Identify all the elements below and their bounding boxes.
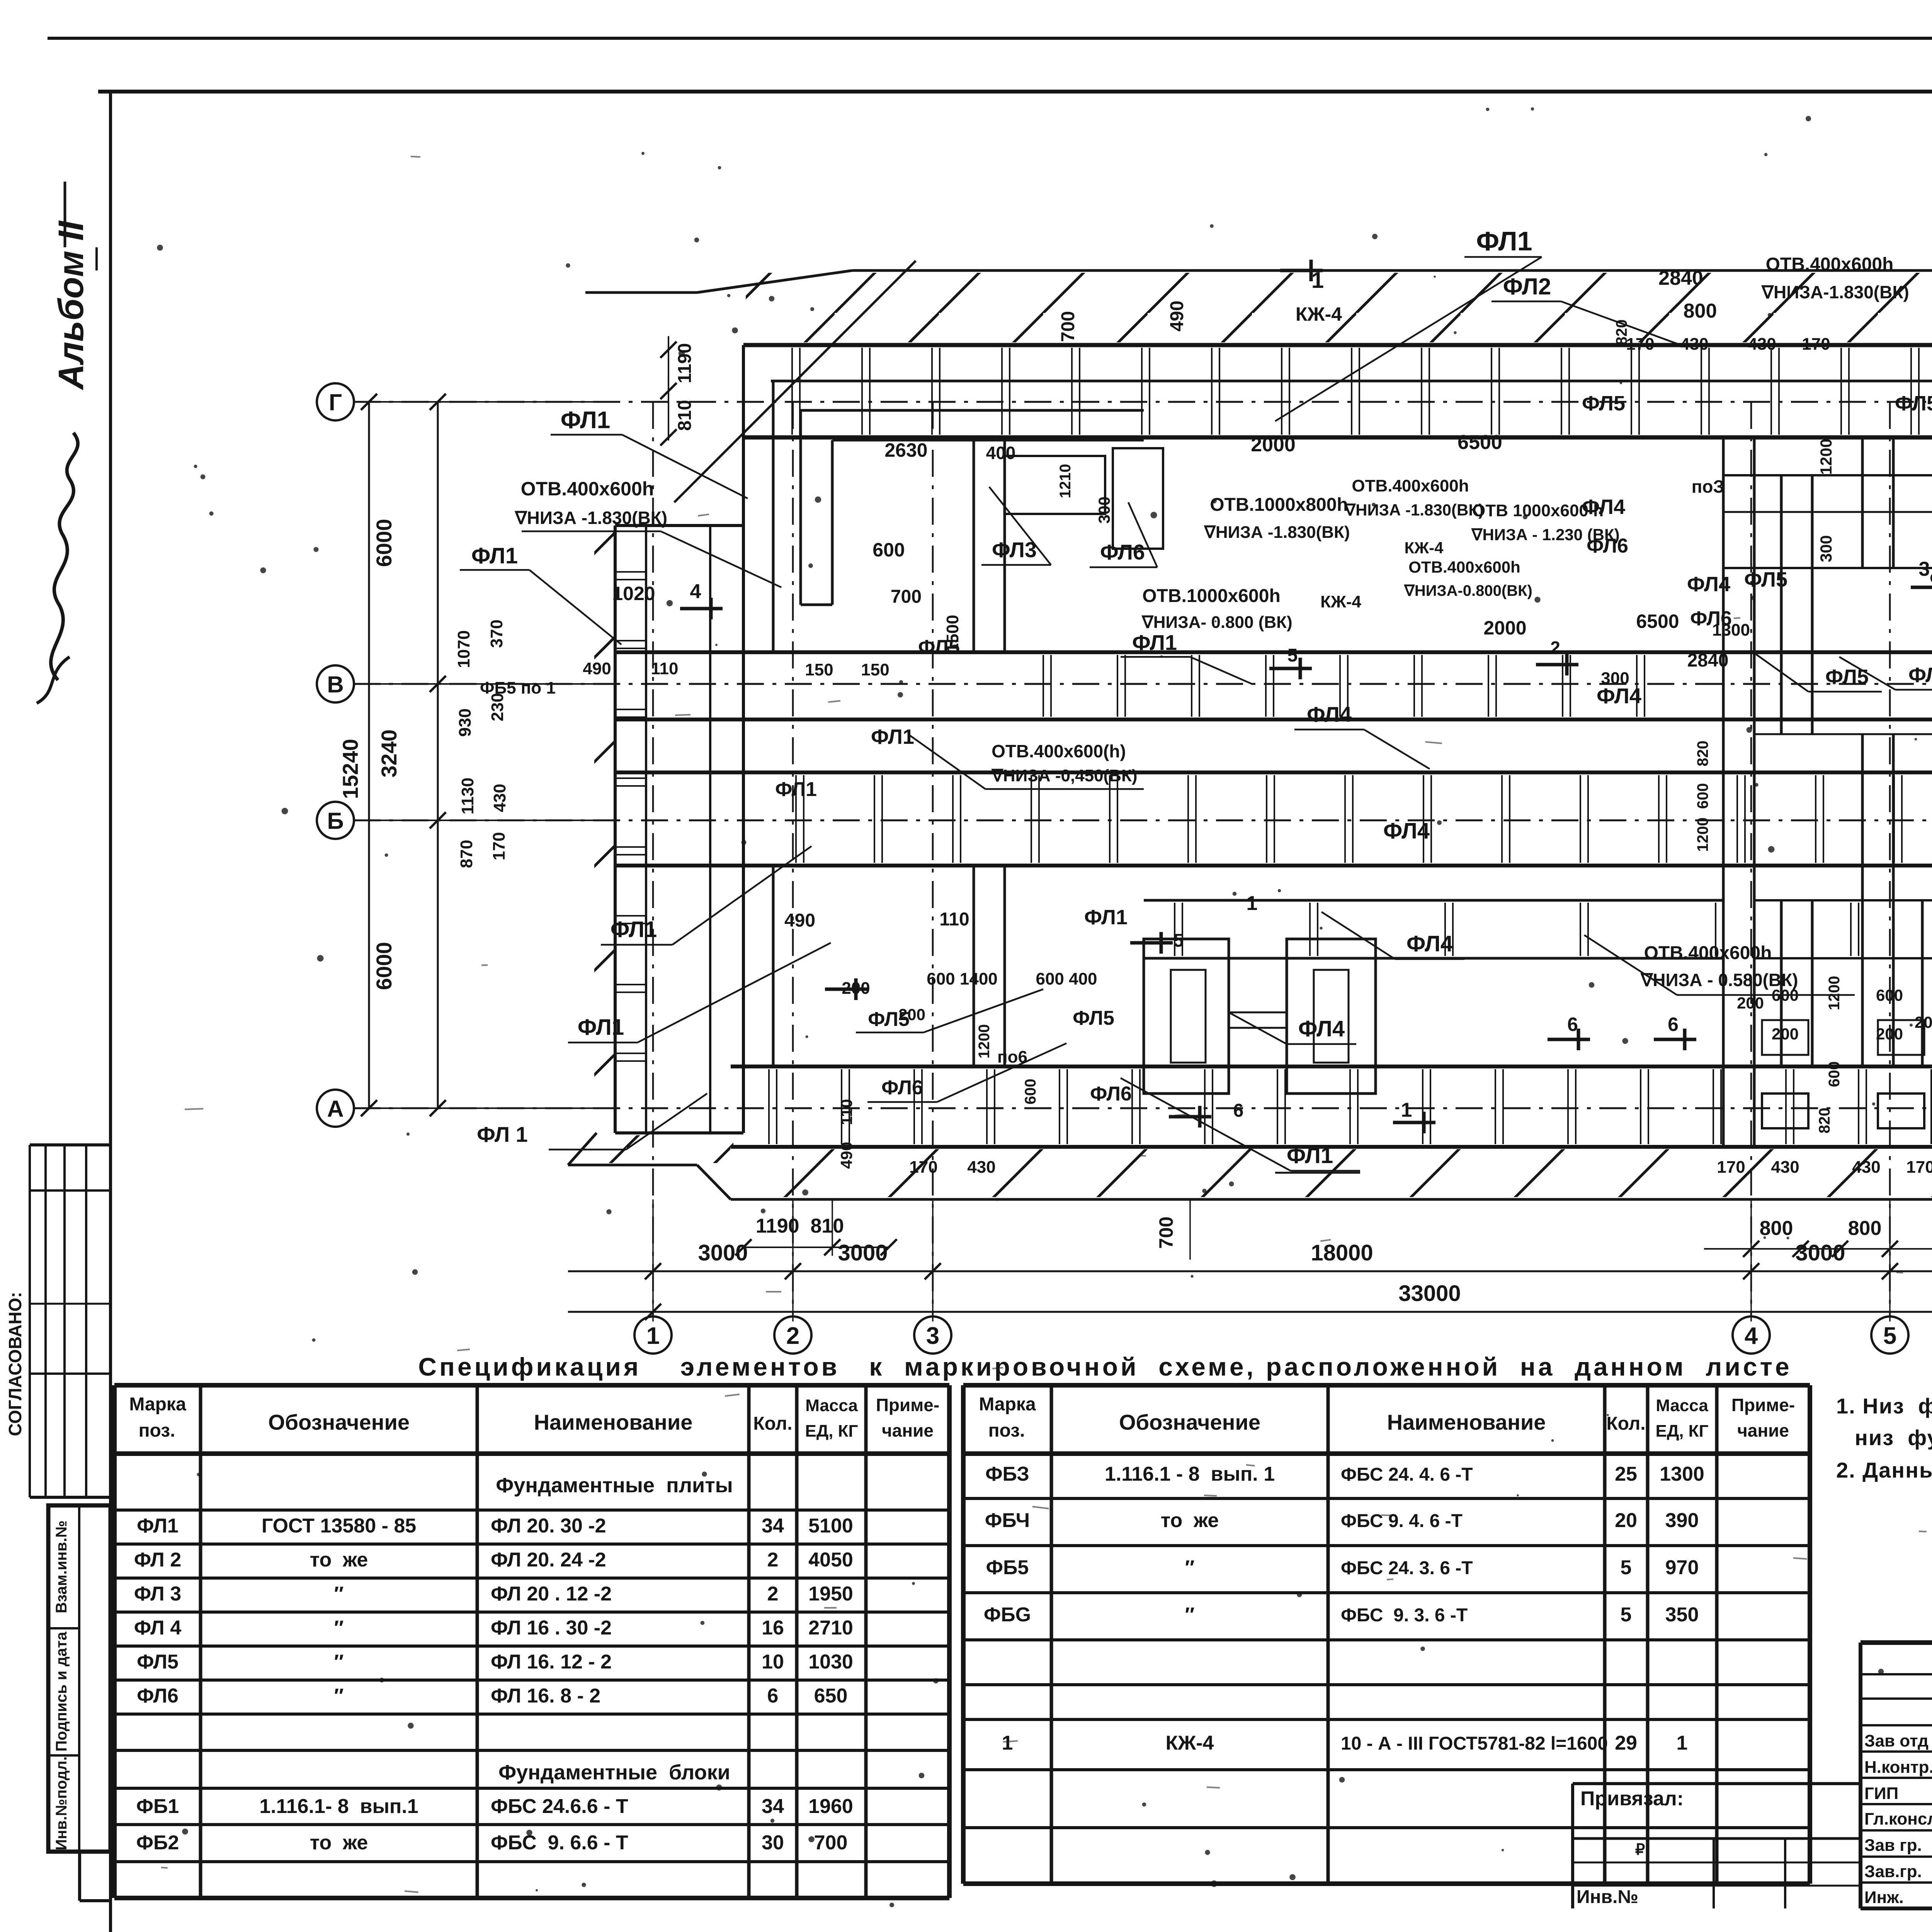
svg-text:600: 600	[1694, 783, 1711, 809]
svg-text:400: 400	[986, 443, 1016, 463]
svg-text:30: 30	[762, 1832, 784, 1854]
svg-text:ФЛ1: ФЛ1	[611, 917, 657, 942]
svg-text:34: 34	[762, 1515, 784, 1537]
svg-text:Фундаментные плиты: Фундаментные плиты	[496, 1474, 733, 1497]
svg-text:6500: 6500	[1636, 611, 1679, 632]
svg-text:Кол.: Кол.	[753, 1413, 792, 1434]
svg-text:820: 820	[1816, 1108, 1833, 1134]
svg-text:Инв.№подл.: Инв.№подл.	[53, 1756, 70, 1850]
svg-text:ОТВ.1000х600h: ОТВ.1000х600h	[1142, 586, 1281, 606]
svg-text:1: 1	[1002, 1732, 1013, 1754]
svg-text:чание: чание	[882, 1420, 934, 1440]
svg-text:ФЛ 2: ФЛ 2	[134, 1549, 181, 1571]
svg-text:650: 650	[814, 1685, 848, 1707]
svg-text:490: 490	[784, 910, 815, 931]
svg-text:1.116.1- 8 вып.1: 1.116.1- 8 вып.1	[259, 1795, 418, 1818]
svg-text:Зав гр.: Зав гр.	[1864, 1836, 1922, 1855]
svg-text:6000: 6000	[372, 942, 396, 990]
svg-text:Обозначение: Обозначение	[1119, 1410, 1260, 1434]
svg-text:ФЛ1: ФЛ1	[1287, 1143, 1333, 1168]
svg-text:ФБС 24. 3. 6 -Т: ФБС 24. 3. 6 -Т	[1341, 1558, 1473, 1578]
svg-text:3000: 3000	[698, 1240, 748, 1265]
svg-text:1960: 1960	[808, 1795, 853, 1818]
svg-text:390: 390	[1665, 1509, 1699, 1532]
svg-text:″: ″	[1185, 1604, 1195, 1626]
svg-text:3000: 3000	[838, 1240, 888, 1265]
svg-text:200: 200	[1915, 1013, 1932, 1031]
svg-text:10 - А - III ГОСТ5781-82 l=160: 10 - А - III ГОСТ5781-82 l=1600	[1341, 1733, 1608, 1754]
svg-text:18000: 18000	[1311, 1240, 1373, 1265]
svg-text:ОТВ.400х600h: ОТВ.400х600h	[521, 478, 654, 500]
svg-text:поЗ: поЗ	[1692, 476, 1725, 497]
svg-text:15240: 15240	[338, 739, 362, 799]
svg-text:ФЛ5: ФЛ5	[137, 1651, 179, 1673]
svg-text:1210: 1210	[1057, 464, 1074, 498]
svg-text:ФЛ 20. 24 -2: ФЛ 20. 24 -2	[491, 1549, 606, 1571]
svg-text:2: 2	[1550, 638, 1560, 658]
svg-text:1020: 1020	[612, 583, 655, 604]
svg-text:СОГЛАСОВАНО:: СОГЛАСОВАНО:	[5, 1292, 25, 1436]
svg-text:430: 430	[1748, 335, 1776, 354]
svg-text:1200: 1200	[976, 1024, 993, 1059]
svg-text:1190: 1190	[675, 343, 695, 383]
svg-text:870: 870	[457, 840, 476, 868]
svg-text:4050: 4050	[808, 1549, 853, 1571]
svg-text:ФЛ4: ФЛ4	[1687, 573, 1730, 596]
svg-text:ФЛ5: ФЛ5	[1895, 392, 1932, 415]
svg-text:3: 3	[1919, 558, 1930, 580]
svg-text:1200: 1200	[1817, 439, 1835, 474]
svg-text:ОТВ.400х600(h): ОТВ.400х600(h)	[992, 741, 1126, 761]
svg-text:∇НИЗА -1.830(ВК): ∇НИЗА -1.830(ВК)	[514, 508, 667, 528]
svg-text:6000: 6000	[372, 519, 396, 567]
svg-text:ОТВ.400х600h: ОТВ.400х600h	[1352, 476, 1469, 495]
svg-text:2840: 2840	[1687, 650, 1729, 671]
svg-text:Наименование: Наименование	[534, 1410, 693, 1434]
svg-text:3000: 3000	[1795, 1240, 1845, 1265]
svg-text:ФБС 9. 6.6 - Т: ФБС 9. 6.6 - Т	[491, 1832, 628, 1854]
svg-text:700: 700	[1155, 1216, 1177, 1248]
svg-text:110: 110	[837, 1099, 855, 1125]
svg-text:то же: то же	[310, 1832, 368, 1854]
svg-text:6: 6	[1668, 1014, 1679, 1035]
svg-text:430: 430	[490, 784, 509, 812]
svg-text:ФЛ6: ФЛ6	[137, 1685, 179, 1707]
svg-text:ФЛ4: ФЛ4	[1383, 818, 1430, 844]
svg-text:ГИП: ГИП	[1864, 1784, 1898, 1803]
svg-text:ФБС 24.6.6 - Т: ФБС 24.6.6 - Т	[491, 1795, 628, 1818]
svg-text:то же: то же	[1161, 1509, 1219, 1532]
svg-text:ФЛ6: ФЛ6	[881, 1077, 923, 1099]
svg-text:ФБС 9. 3. 6 -Т: ФБС 9. 3. 6 -Т	[1341, 1605, 1468, 1626]
svg-text:600 400: 600 400	[1036, 969, 1097, 988]
svg-text:200: 200	[1737, 994, 1764, 1012]
svg-text:Инв.№: Инв.№	[1577, 1887, 1638, 1907]
svg-text:Обозначение: Обозначение	[268, 1410, 410, 1434]
svg-text:1200: 1200	[1694, 818, 1711, 852]
svg-text:430: 430	[967, 1158, 995, 1177]
svg-text:2: 2	[767, 1549, 779, 1571]
svg-text:Взам.инв.№: Взам.инв.№	[53, 1520, 70, 1613]
svg-text:700: 700	[1058, 311, 1078, 342]
svg-text:1030: 1030	[808, 1651, 853, 1673]
svg-text:970: 970	[1665, 1556, 1699, 1579]
svg-text:ФЛ1: ФЛ1	[561, 407, 611, 434]
svg-text:Зав отд: Зав отд	[1864, 1731, 1929, 1750]
svg-text:700: 700	[814, 1832, 848, 1854]
svg-text:ФБ2: ФБ2	[136, 1832, 179, 1854]
svg-text:5100: 5100	[808, 1515, 853, 1537]
svg-text:110: 110	[939, 909, 969, 930]
svg-text:5: 5	[1287, 645, 1298, 666]
svg-text:Альбом II: Альбом II	[51, 220, 91, 390]
svg-text:ФЛ2: ФЛ2	[1503, 274, 1551, 299]
svg-text:ЕД, КГ: ЕД, КГ	[805, 1422, 858, 1440]
svg-text:490: 490	[1167, 301, 1187, 332]
svg-text:2710: 2710	[808, 1617, 853, 1639]
svg-text:170: 170	[1802, 335, 1830, 354]
svg-text:ФЛ6: ФЛ6	[1100, 540, 1145, 564]
svg-text:Привязал:: Привязал:	[1580, 1787, 1684, 1810]
svg-text:чание: чание	[1737, 1420, 1789, 1440]
svg-text:″: ″	[334, 1583, 344, 1605]
svg-text:″: ″	[334, 1651, 344, 1673]
svg-text:5: 5	[1173, 930, 1184, 951]
svg-text:ФЛ5: ФЛ5	[1825, 665, 1869, 689]
svg-text:6500: 6500	[1458, 431, 1502, 454]
svg-text:ФЛ 3: ФЛ 3	[134, 1583, 181, 1605]
svg-text:300: 300	[1095, 497, 1113, 524]
svg-text:6: 6	[1567, 1014, 1578, 1035]
svg-text:Спецификация элементов к: Спецификация элементов к маркировочной с…	[418, 1352, 1792, 1381]
svg-text:Приме-: Приме-	[1731, 1395, 1795, 1415]
svg-text:″: ″	[1185, 1556, 1195, 1579]
svg-text:800: 800	[1848, 1217, 1882, 1240]
svg-text:ОТВ.400х600h: ОТВ.400х600h	[1766, 254, 1894, 275]
svg-text:ФЛ 20. 30 -2: ФЛ 20. 30 -2	[491, 1515, 606, 1537]
svg-text:ФБЧ: ФБЧ	[985, 1509, 1030, 1532]
svg-text:Подпись и дата: Подпись и дата	[53, 1631, 70, 1752]
svg-text:170: 170	[909, 1158, 937, 1177]
svg-text:Марка: Марка	[129, 1394, 186, 1415]
svg-text:1: 1	[646, 1323, 660, 1349]
svg-text:6: 6	[1233, 1100, 1244, 1121]
svg-text:Зав.гр.: Зав.гр.	[1864, 1862, 1922, 1881]
svg-text:350: 350	[1665, 1604, 1699, 1626]
svg-text:поз.: поз.	[139, 1420, 175, 1441]
svg-text:ОТВ.1000х800h: ОТВ.1000х800h	[1210, 495, 1348, 515]
svg-text:ФБС 24. 4. 6 -Т: ФБС 24. 4. 6 -Т	[1341, 1464, 1473, 1485]
svg-text:Фундаментные блоки: Фундаментные блоки	[498, 1761, 730, 1784]
svg-text:4: 4	[690, 580, 701, 603]
svg-text:ФБG: ФБG	[984, 1604, 1031, 1626]
svg-text:600: 600	[872, 539, 905, 561]
svg-text:2: 2	[786, 1323, 799, 1349]
svg-text:1500: 1500	[943, 615, 962, 653]
svg-text:600: 600	[1022, 1079, 1039, 1105]
svg-text:Г: Г	[329, 389, 342, 415]
svg-text:Кол.: Кол.	[1606, 1413, 1645, 1434]
svg-text:5: 5	[1621, 1556, 1632, 1579]
svg-text:170: 170	[490, 832, 509, 860]
svg-text:ФЛ1: ФЛ1	[137, 1515, 179, 1537]
svg-text:ФБС 9. 4. 6 -Т: ФБС 9. 4. 6 -Т	[1341, 1511, 1463, 1531]
svg-text:34: 34	[762, 1795, 784, 1818]
svg-text:2000: 2000	[1251, 434, 1296, 456]
svg-text:ФЛ4: ФЛ4	[1298, 1016, 1345, 1041]
svg-text:2840: 2840	[1658, 267, 1703, 289]
svg-text:170: 170	[1626, 335, 1654, 354]
svg-text:В: В	[327, 672, 344, 697]
svg-text:ФЛ 16. 8 - 2: ФЛ 16. 8 - 2	[491, 1685, 600, 1707]
svg-text:33000: 33000	[1398, 1281, 1461, 1306]
svg-text:700: 700	[891, 587, 922, 607]
svg-text:150: 150	[861, 660, 889, 679]
svg-text:1: 1	[1401, 1099, 1412, 1121]
svg-text:ОТВ.400х600h: ОТВ.400х600h	[1408, 558, 1520, 576]
svg-text:∇НИЗА -1.830(ВК): ∇НИЗА -1.830(ВК)	[1203, 523, 1350, 542]
svg-text:200: 200	[1876, 1025, 1903, 1043]
svg-text:2: 2	[767, 1583, 779, 1605]
svg-text:Н.контр.: Н.контр.	[1864, 1758, 1932, 1777]
svg-text:430: 430	[1680, 335, 1708, 354]
svg-text:₽.: ₽.	[1635, 1841, 1650, 1858]
svg-text:2630: 2630	[884, 439, 927, 461]
svg-text:800: 800	[1760, 1217, 1793, 1240]
svg-text:ФБ5 по 1: ФБ5 по 1	[480, 679, 556, 697]
svg-text:1070: 1070	[454, 630, 473, 668]
svg-text:∇НИЗА -1.830(ВК): ∇НИЗА -1.830(ВК)	[1344, 501, 1484, 519]
svg-text:ФЛ5: ФЛ5	[1744, 568, 1787, 591]
svg-text:ФЛ3: ФЛ3	[992, 537, 1037, 562]
svg-text:ФЛ 16 . 30 -2: ФЛ 16 . 30 -2	[491, 1617, 612, 1639]
svg-text:поз.: поз.	[988, 1420, 1025, 1441]
svg-text:низ фундаментных плит ФЛ4÷: низ фундаментных плит ФЛ4÷ ФЛ6 на отм. -…	[1855, 1425, 1932, 1450]
svg-text:110: 110	[651, 659, 679, 678]
svg-text:1: 1	[1677, 1732, 1688, 1754]
svg-text:800: 800	[1684, 300, 1717, 322]
svg-text:∇НИЗА-0.800(ВК): ∇НИЗА-0.800(ВК)	[1403, 582, 1532, 599]
svg-text:Наименование: Наименование	[1387, 1410, 1546, 1434]
svg-text:КЖ-4: КЖ-4	[1166, 1732, 1214, 1754]
svg-text:930: 930	[456, 708, 474, 736]
svg-text:Приме-: Приме-	[876, 1395, 939, 1415]
svg-text:810: 810	[675, 400, 695, 431]
svg-text:10: 10	[762, 1651, 784, 1673]
svg-text:370: 370	[487, 619, 506, 648]
svg-text:КЖ-4: КЖ-4	[1296, 303, 1342, 325]
svg-text:Инж.: Инж.	[1864, 1888, 1904, 1907]
svg-text:4: 4	[1745, 1323, 1758, 1349]
svg-text:ГОСТ 13580 - 85: ГОСТ 13580 - 85	[262, 1515, 416, 1537]
svg-text:КЖ-4: КЖ-4	[1320, 592, 1361, 611]
svg-text:ФБ5: ФБ5	[986, 1556, 1029, 1579]
svg-text:КЖ-4: КЖ-4	[1405, 539, 1444, 557]
svg-text:Масса: Масса	[805, 1396, 858, 1415]
svg-text:5: 5	[1883, 1323, 1896, 1349]
svg-text:ФЛ6: ФЛ6	[1090, 1083, 1132, 1105]
svg-text:170: 170	[1717, 1158, 1745, 1177]
svg-text:490: 490	[583, 659, 611, 678]
svg-text:″: ″	[334, 1685, 344, 1707]
svg-text:820: 820	[1694, 741, 1711, 767]
svg-text:ФЛ1: ФЛ1	[578, 1015, 624, 1040]
svg-text:1. Низ фундаментных плит ФЛ: 1. Низ фундаментных плит ФЛ 1÷ФЛ З на от…	[1836, 1394, 1932, 1418]
svg-text:25: 25	[1615, 1463, 1637, 1485]
svg-text:430: 430	[1852, 1158, 1880, 1177]
svg-text:430: 430	[1771, 1158, 1799, 1177]
svg-text:200: 200	[1772, 1025, 1799, 1043]
svg-text:ФЛ6: ФЛ6	[1690, 607, 1732, 630]
svg-text:3: 3	[926, 1323, 939, 1349]
svg-text:6: 6	[767, 1685, 779, 1707]
svg-text:490: 490	[837, 1142, 855, 1169]
svg-text:3240: 3240	[377, 730, 401, 778]
svg-text:то же: то же	[310, 1549, 368, 1571]
svg-text:1300: 1300	[1660, 1463, 1704, 1485]
svg-text:∇НИЗА- 0.800 (ВК): ∇НИЗА- 0.800 (ВК)	[1141, 613, 1292, 632]
svg-text:ФЛ 16. 12 - 2: ФЛ 16. 12 - 2	[491, 1651, 612, 1673]
svg-text:ФБ1: ФБ1	[136, 1795, 179, 1818]
svg-text:ФЛ1: ФЛ1	[1084, 906, 1128, 929]
svg-text:ФЛ4: ФЛ4	[1406, 931, 1453, 956]
svg-text:ФЛ 20 . 12 -2: ФЛ 20 . 12 -2	[491, 1583, 612, 1605]
svg-text:1190 810: 1190 810	[756, 1215, 844, 1237]
svg-text:∇НИЗА -0,450(ВК): ∇НИЗА -0,450(ВК)	[991, 766, 1137, 785]
svg-text:29: 29	[1615, 1732, 1637, 1754]
svg-text:ОТВ.400х600h: ОТВ.400х600h	[1644, 943, 1772, 963]
svg-text:150: 150	[805, 660, 833, 679]
svg-text:ФЛ4: ФЛ4	[1597, 684, 1641, 708]
svg-text:Гл.консл: Гл.консл	[1864, 1810, 1932, 1828]
svg-text:Марка: Марка	[979, 1394, 1036, 1415]
svg-text:16: 16	[762, 1617, 784, 1639]
svg-text:ФБЗ: ФБЗ	[985, 1463, 1029, 1485]
svg-text:ФЛ 1: ФЛ 1	[477, 1122, 528, 1146]
svg-text:600: 600	[1826, 1061, 1843, 1087]
svg-text:ФЛ5: ФЛ5	[1582, 392, 1625, 415]
svg-text:1130: 1130	[458, 777, 477, 814]
svg-text:1200: 1200	[1826, 976, 1843, 1010]
svg-text:ФЛ 4: ФЛ 4	[134, 1617, 181, 1639]
svg-text:300: 300	[1817, 535, 1835, 562]
svg-text:1.116.1 - 8 вып. 1: 1.116.1 - 8 вып. 1	[1105, 1463, 1275, 1485]
svg-text:1950: 1950	[808, 1583, 853, 1605]
svg-text:А: А	[327, 1096, 344, 1122]
svg-text:Масса: Масса	[1656, 1396, 1708, 1415]
svg-text:ФЛ5: ФЛ5	[1073, 1007, 1114, 1029]
svg-text:5: 5	[1621, 1604, 1632, 1626]
svg-text:1: 1	[1247, 892, 1258, 915]
svg-text:2000: 2000	[1483, 617, 1526, 639]
svg-text:ФЛ4: ФЛ4	[1908, 663, 1932, 687]
svg-text:Б: Б	[327, 808, 344, 834]
svg-text:ФЛ5: ФЛ5	[868, 1008, 910, 1031]
svg-text:ФЛ1: ФЛ1	[1132, 630, 1177, 655]
svg-text:ФЛ4: ФЛ4	[1582, 495, 1625, 519]
svg-text:ЕД, КГ: ЕД, КГ	[1656, 1422, 1709, 1440]
svg-text:ФЛ1: ФЛ1	[871, 725, 914, 748]
svg-text:600: 600	[1876, 986, 1903, 1004]
svg-text:20: 20	[1615, 1509, 1637, 1532]
svg-text:2. Данный лист см. совместно: 2. Данный лист см. совместно с листом КЖ…	[1836, 1458, 1932, 1482]
svg-text:∇НИЗА-1.830(ВК): ∇НИЗА-1.830(ВК)	[1761, 282, 1909, 302]
svg-text:″: ″	[334, 1617, 344, 1639]
svg-text:600 1400: 600 1400	[927, 969, 998, 988]
svg-text:ФЛ1: ФЛ1	[471, 543, 518, 568]
svg-text:ФЛ1: ФЛ1	[1476, 226, 1532, 256]
svg-text:ФЛ1: ФЛ1	[775, 778, 817, 801]
svg-text:ФЛ6: ФЛ6	[1587, 535, 1628, 557]
svg-text:ФЛ4: ФЛ4	[1307, 702, 1352, 726]
svg-text:170: 170	[1906, 1158, 1932, 1177]
